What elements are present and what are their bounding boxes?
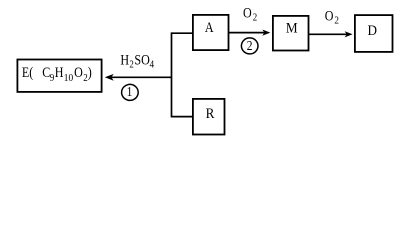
svg-text:2: 2 (334, 15, 339, 27)
svg-text:O: O (325, 8, 334, 24)
svg-text:R: R (206, 106, 216, 122)
label M (286, 20, 298, 36)
svg-text:): ) (88, 64, 92, 80)
svg-text:A: A (205, 19, 214, 35)
wire M to D (309, 33, 347, 35)
svg-text:2: 2 (253, 12, 258, 24)
box M (273, 16, 309, 51)
label E(C9H10O2) (22, 64, 92, 84)
svg-text:4: 4 (149, 59, 154, 71)
label R (206, 106, 216, 122)
svg-text:2: 2 (129, 59, 134, 71)
arrowhead into M (262, 30, 270, 36)
circled 1 (122, 84, 139, 100)
svg-text:9: 9 (50, 72, 55, 84)
svg-text:H: H (120, 52, 129, 68)
label O2 first (243, 5, 257, 24)
svg-text:1: 1 (127, 84, 133, 99)
circled 2 (241, 38, 258, 54)
label A (205, 19, 214, 35)
label O2 second (325, 8, 339, 27)
svg-text:SO: SO (134, 52, 149, 68)
arrowhead into D (345, 31, 353, 37)
svg-text:2: 2 (247, 38, 253, 53)
svg-text:D: D (368, 22, 378, 38)
label D (368, 22, 378, 38)
svg-text:H: H (55, 64, 64, 80)
box A (193, 15, 229, 50)
wire trunk: A left to R left via vertical (172, 33, 193, 116)
box R (193, 99, 225, 135)
box D (355, 15, 393, 52)
arrowhead into E (105, 74, 114, 81)
svg-text:O: O (243, 5, 252, 21)
svg-text:E(: E( (22, 64, 33, 80)
box E (17, 60, 101, 92)
svg-text:10: 10 (64, 72, 73, 84)
svg-text:M: M (286, 20, 298, 36)
wire A to M (229, 32, 265, 34)
svg-text:O: O (74, 64, 83, 80)
wire arrow shaft to E (110, 76, 172, 78)
label H2SO4 (120, 52, 154, 71)
